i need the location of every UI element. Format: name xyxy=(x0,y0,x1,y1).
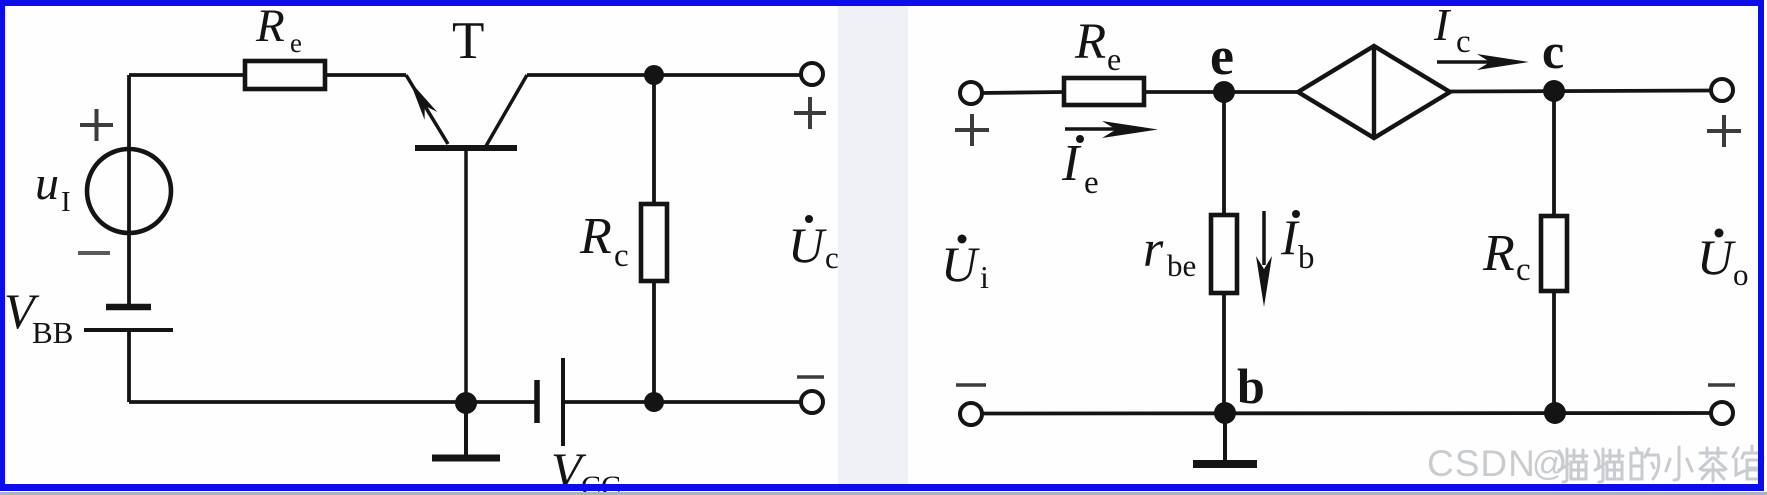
svg-text:c: c xyxy=(1456,24,1471,60)
svg-text:i: i xyxy=(980,259,989,295)
wire: bottom rail left (source to Vcc battery) xyxy=(129,400,537,404)
node b xyxy=(1214,402,1236,424)
polarity + output xyxy=(794,97,826,129)
svg-text:R: R xyxy=(255,0,285,52)
polarity - input xyxy=(956,383,986,387)
battery VCC short plate xyxy=(534,380,540,423)
dependent current source diamond xyxy=(1298,46,1450,138)
svg-text:R: R xyxy=(1482,225,1515,282)
svg-text:be: be xyxy=(1167,248,1196,283)
label Uc output voltage xyxy=(805,215,813,223)
watermark chinese glyphs (approximated strokes) xyxy=(1559,446,1763,482)
polarity - of u_I xyxy=(78,251,110,255)
junction top (collector / Rc) xyxy=(644,65,664,85)
ground at node b xyxy=(1223,413,1227,460)
ground at base xyxy=(464,403,468,457)
input terminal bottom xyxy=(960,403,982,425)
transistor T emitter arrow xyxy=(403,77,437,120)
wire: diamond to node c to output terminal xyxy=(1450,91,1711,92)
svg-text:c: c xyxy=(1516,252,1531,288)
svg-text:CC: CC xyxy=(581,470,621,495)
wire: input terminal to Re2 xyxy=(982,92,1064,93)
svg-text:u: u xyxy=(35,157,59,210)
svg-text:CSDN: CSDN xyxy=(1427,443,1536,484)
label Ib xyxy=(1292,210,1300,218)
svg-text:U: U xyxy=(941,236,980,292)
svg-text:U: U xyxy=(788,217,827,273)
polarity - output right xyxy=(1708,383,1735,387)
svg-text:e: e xyxy=(1107,41,1121,77)
wire: collector to output terminal xyxy=(527,73,812,77)
light band between circuits xyxy=(838,6,908,484)
transistor T collector line xyxy=(486,75,527,146)
current arrow Ib xyxy=(1262,211,1266,265)
label Uo output voltage xyxy=(1715,229,1724,238)
svg-text:c: c xyxy=(825,240,839,275)
label Ie xyxy=(1076,135,1084,143)
wire: Rc branch vertical xyxy=(652,75,656,402)
transistor T base bar xyxy=(415,145,517,151)
svg-text:I: I xyxy=(1433,0,1452,50)
svg-text:e: e xyxy=(290,28,302,58)
wire: bottom rail xyxy=(982,411,1711,415)
wire: Re to transistor emitter xyxy=(324,73,406,77)
polarity + input xyxy=(955,114,989,146)
svg-text:I: I xyxy=(1280,209,1300,265)
wire: bottom rail right (Vcc battery to output terminal) xyxy=(563,400,812,404)
resistor Rc (right circuit) xyxy=(1541,216,1567,291)
battery VCC long plate xyxy=(561,358,565,446)
svg-text:T: T xyxy=(452,12,484,70)
current arrow Ie xyxy=(1065,127,1125,131)
svg-text:BB: BB xyxy=(32,315,73,350)
resistor Rc (left circuit) xyxy=(641,204,667,281)
label Ui input voltage xyxy=(958,235,967,244)
polarity - output xyxy=(797,375,824,379)
current arrow Ic xyxy=(1437,60,1490,64)
junction base/rail xyxy=(455,392,477,414)
transistor T base lead down xyxy=(464,148,468,403)
node c xyxy=(1543,80,1565,102)
battery VBB long plate xyxy=(84,328,173,332)
input terminal top xyxy=(960,82,982,104)
output terminal top right xyxy=(1711,79,1733,101)
svg-text:b: b xyxy=(1298,240,1315,276)
svg-text:I: I xyxy=(1061,135,1082,192)
output terminal bottom (left circuit) xyxy=(801,391,823,413)
svg-text:c: c xyxy=(1542,23,1564,79)
wire: top rail from source to Re xyxy=(129,73,245,77)
svg-text:I: I xyxy=(61,186,71,218)
wire: node e down through rbe to node b xyxy=(1222,92,1226,413)
transistor T emitter line xyxy=(406,75,448,144)
svg-text:r: r xyxy=(1143,221,1164,278)
wire: node c down through Rc2 to bottom rail xyxy=(1552,91,1556,413)
svg-text:R: R xyxy=(1074,14,1106,70)
svg-text:b: b xyxy=(1237,358,1265,414)
wire: battery VBB bottom to bottom rail xyxy=(127,331,131,402)
wire: Re2 to node e xyxy=(1144,90,1298,94)
output terminal top (left circuit) xyxy=(801,63,823,85)
resistor rbe xyxy=(1211,215,1237,293)
svg-text:o: o xyxy=(1733,257,1749,292)
svg-text:R: R xyxy=(579,208,612,265)
polarity + of u_I xyxy=(80,109,113,141)
diamond internal arrow line xyxy=(1372,46,1376,138)
resistor Re (right circuit) xyxy=(1064,78,1144,105)
polarity + output right xyxy=(1707,115,1741,147)
svg-text:c: c xyxy=(614,238,629,274)
gray strip bottom xyxy=(0,492,1767,495)
junction bottom (Rc / rail) xyxy=(644,392,664,412)
svg-text:e: e xyxy=(1210,26,1234,86)
svg-text:U: U xyxy=(1697,229,1736,285)
svg-text:e: e xyxy=(1084,165,1099,201)
junction Rc2 bottom xyxy=(1544,402,1566,424)
node e xyxy=(1213,81,1235,103)
wire: source top to Re (vertical through source) xyxy=(127,75,131,305)
voltage source u_I circle xyxy=(87,149,171,233)
output terminal bottom right xyxy=(1711,402,1733,424)
battery VBB short plate xyxy=(106,304,151,311)
resistor Re (left) xyxy=(245,61,325,89)
